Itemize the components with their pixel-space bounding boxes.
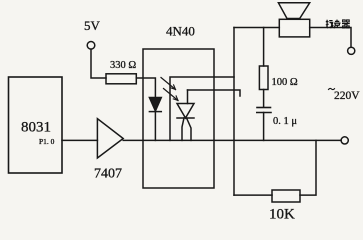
resistor R1 330 ohm bbox=[106, 74, 136, 84]
5V terminal circle bbox=[87, 42, 95, 50]
wire 5V down to R1 row bbox=[91, 49, 106, 78]
resistor R3 10K loop bbox=[234, 194, 272, 196]
IC U1 8031 box bbox=[9, 77, 63, 173]
svg-text:0. 1 μ: 0. 1 μ bbox=[273, 116, 297, 127]
inner wire from main wire up and right to speaker drop bbox=[170, 77, 234, 140]
wire 8031 output to 7407 input bbox=[62, 139, 97, 141]
wire R2 to C1 bbox=[263, 90, 265, 108]
AC terminal circle top bbox=[348, 47, 355, 54]
output terminal circle bbox=[341, 137, 348, 144]
svg-text:330 Ω: 330 Ω bbox=[110, 60, 136, 71]
SCR anode wire right bbox=[188, 90, 241, 96]
main output wire bbox=[123, 139, 341, 141]
speaker LS1 bbox=[279, 19, 309, 37]
capacitor C1 0.1u bbox=[257, 107, 271, 109]
svg-text:7407: 7407 bbox=[94, 167, 122, 182]
svg-text:4N40: 4N40 bbox=[166, 24, 195, 39]
light arrow 2 bbox=[164, 89, 179, 101]
light arrow 1 bbox=[161, 78, 176, 90]
SCR gate lead bbox=[187, 119, 191, 140]
label speaker (Chinese: yang sheng qi) drawn strokes bbox=[326, 20, 350, 29]
svg-text:100 Ω: 100 Ω bbox=[272, 77, 298, 88]
svg-text:P1. 0: P1. 0 bbox=[39, 137, 55, 146]
wire speaker right to AC terminal bbox=[310, 28, 351, 48]
svg-text:220V: 220V bbox=[334, 90, 360, 102]
speaker drop wire (vertical) bbox=[233, 28, 235, 196]
svg-text:5V: 5V bbox=[84, 18, 101, 33]
SCR cathode lead bbox=[182, 118, 184, 140]
char qi bbox=[342, 20, 350, 28]
svg-text:10K: 10K bbox=[269, 207, 295, 223]
wire speaker left bbox=[234, 27, 279, 29]
buffer U2 7407 triangle bbox=[97, 119, 123, 158]
LED D1 inside 4N40 bbox=[149, 98, 161, 112]
svg-text:8031: 8031 bbox=[21, 120, 51, 136]
char sheng bbox=[334, 20, 341, 29]
label ~220V bbox=[329, 88, 335, 89]
wire LED cathode down to main wire bbox=[154, 112, 156, 141]
char yang bbox=[326, 20, 333, 28]
resistor R2 100 ohm bbox=[263, 28, 265, 67]
photo-SCR Q1 inside 4N40 bbox=[187, 90, 189, 104]
wire C1 down to main wire bbox=[263, 113, 265, 141]
wire R1 to LED anode bbox=[136, 78, 155, 98]
optocoupler U3 4N40 package box bbox=[143, 49, 214, 188]
